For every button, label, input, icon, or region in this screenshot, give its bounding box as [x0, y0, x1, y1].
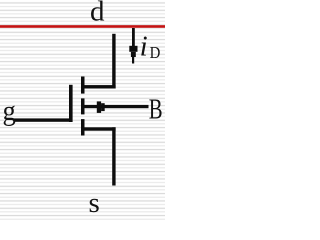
wire: gate lead: [14, 118, 69, 121]
label iD: [140, 31, 161, 63]
channel segment (source contact): [81, 119, 85, 135]
gate bar: [69, 85, 73, 122]
transistor M1 (4-terminal MOSFET): [69, 77, 85, 136]
svg-text:i: i: [140, 31, 148, 63]
red supply rail wire: [0, 25, 165, 28]
svg-text:B: B: [149, 95, 163, 126]
channel segment (body contact): [81, 98, 85, 114]
wire: source horizontal from transistor: [85, 127, 116, 130]
svg-text:D: D: [150, 44, 161, 62]
channel segment (drain contact): [81, 77, 85, 94]
svg-text:s: s: [89, 187, 100, 219]
svg-text:g: g: [3, 95, 16, 127]
wire: drain vertical from rail to transistor: [112, 34, 115, 89]
current arrow iD: [129, 28, 137, 64]
wire: source vertical down: [112, 127, 115, 185]
svg-text:d: d: [90, 0, 105, 28]
wire: body lead with arrowhead: [85, 101, 149, 113]
wire: drain horizontal into transistor: [85, 85, 116, 88]
